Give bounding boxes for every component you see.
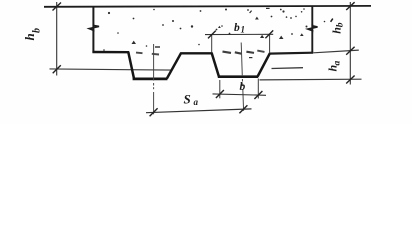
break symbol on left edge [89, 24, 99, 33]
top surface line [44, 5, 371, 8]
flange bottom right segment [269, 52, 313, 55]
centerline rib 2 [241, 43, 243, 111]
tick at h_b bottom crossing [53, 65, 61, 73]
small dash aggregate marks [155, 46, 160, 47]
faint broken line across rib 2 opening [223, 52, 232, 53]
tick at top-right crossing [346, 2, 354, 10]
slab left cut edge [92, 6, 94, 53]
flange bottom middle segment [180, 52, 212, 54]
tick at h_a bottom crossing [346, 76, 354, 84]
h_a bottom extension line [260, 78, 362, 81]
tick b1 left [208, 31, 216, 39]
svg-text:1: 1 [241, 24, 246, 34]
concrete stipple dots and aggregate marks [103, 8, 325, 58]
flange bottom left segment [92, 51, 129, 54]
tick b right [254, 91, 262, 99]
right dimension line [349, 2, 351, 85]
slab right cut edge [311, 6, 313, 53]
h_b' extension line [314, 50, 359, 53]
rib 1 bottom [133, 78, 168, 81]
rib 1 left slope [128, 52, 134, 79]
b1 dimension line [205, 33, 273, 35]
b dimension extension line right [257, 79, 259, 99]
aggregate triangle marks [260, 35, 264, 38]
label h_b' [330, 22, 346, 34]
rib 2 bottom [218, 75, 258, 78]
rib 1 right slope [167, 53, 181, 79]
b dimension line [213, 94, 267, 95]
aggregate slash mark [250, 11, 252, 13]
tick at top-left crossing [53, 3, 62, 11]
rib 2 left slope [212, 53, 219, 77]
b1 dimension extension line right [269, 35, 271, 54]
faint broken line across rib 1 opening [136, 52, 143, 55]
svg-text:b: b [336, 22, 346, 27]
short ledge line right of rib 2 [272, 67, 304, 70]
svg-text:b: b [31, 28, 42, 33]
break symbol on right edge [308, 24, 318, 32]
label h_a [326, 61, 343, 72]
b dimension extension line left [219, 80, 221, 98]
tick b1 right [265, 30, 273, 38]
svg-text:a: a [194, 97, 199, 107]
svg-text:a: a [333, 61, 343, 66]
tick S_a right [239, 105, 247, 113]
S_a dimension line [146, 109, 252, 113]
svg-text:S: S [184, 92, 191, 107]
left dimension line hb [56, 2, 58, 76]
h_b bottom extension line [50, 69, 173, 70]
svg-text:h: h [22, 33, 37, 40]
tick b left [216, 90, 224, 98]
prime mark of h_b' [331, 19, 333, 22]
label h_b [22, 28, 42, 41]
rib 2 right slope [258, 53, 270, 76]
svg-text:b: b [240, 81, 246, 93]
tick at h_b' crossing [346, 47, 354, 55]
b1 dimension extension line left [211, 35, 213, 53]
centerline rib 1 [153, 44, 155, 114]
svg-text:b: b [234, 22, 240, 34]
tick S_a left [150, 108, 158, 116]
